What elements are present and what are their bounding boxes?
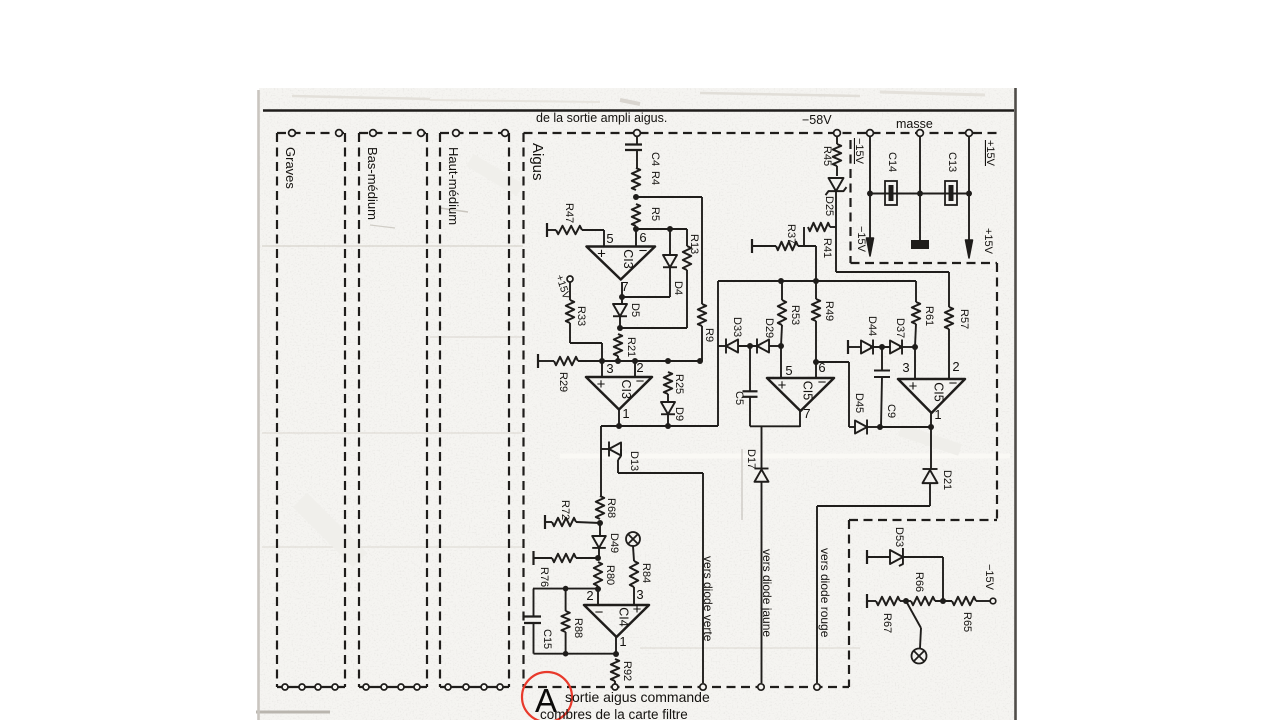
svg-text:D53: D53 — [893, 527, 905, 547]
svg-text:vers diode rouge: vers diode rouge — [818, 548, 832, 638]
svg-text:D33: D33 — [731, 317, 743, 337]
svg-text:+: + — [909, 378, 918, 395]
svg-text:+15V: +15V — [984, 140, 996, 167]
svg-text:R47: R47 — [563, 203, 575, 223]
svg-text:C5: C5 — [733, 391, 745, 405]
svg-text:7: 7 — [803, 406, 810, 421]
svg-text:C15: C15 — [541, 629, 553, 649]
svg-text:−: − — [949, 375, 958, 392]
svg-text:R72: R72 — [559, 500, 571, 520]
svg-text:CI4: CI4 — [617, 607, 631, 627]
svg-text:D21: D21 — [941, 470, 953, 490]
svg-text:R80: R80 — [604, 565, 616, 585]
svg-text:C14: C14 — [886, 152, 898, 172]
svg-text:R67: R67 — [881, 613, 893, 633]
svg-text:D17: D17 — [745, 449, 757, 469]
svg-text:R49: R49 — [823, 301, 835, 321]
svg-text:3: 3 — [902, 360, 909, 375]
svg-text:D13: D13 — [628, 451, 640, 471]
svg-text:CI3: CI3 — [619, 380, 633, 400]
svg-text:−: − — [639, 243, 648, 260]
svg-text:+: + — [597, 246, 606, 263]
svg-text:D4: D4 — [672, 281, 684, 295]
svg-text:R66: R66 — [913, 572, 925, 592]
svg-text:Aigus: Aigus — [529, 143, 546, 181]
svg-text:R68: R68 — [605, 498, 617, 518]
svg-text:−15V: −15V — [853, 138, 865, 165]
svg-text:de la sortie ampli aigus.: de la sortie ampli aigus. — [536, 111, 667, 125]
svg-text:C9: C9 — [885, 404, 897, 418]
svg-text:vers diode verte: vers diode verte — [701, 556, 715, 642]
svg-text:5: 5 — [606, 231, 613, 246]
svg-text:−: − — [636, 373, 645, 390]
svg-text:6: 6 — [639, 230, 646, 245]
svg-text:D5: D5 — [629, 303, 641, 317]
svg-text:R92: R92 — [621, 661, 633, 681]
svg-text:R88: R88 — [572, 618, 584, 638]
svg-text:−15V: −15V — [983, 564, 995, 591]
svg-text:D25: D25 — [823, 196, 835, 216]
svg-text:3: 3 — [606, 361, 613, 376]
svg-text:R5: R5 — [649, 207, 661, 221]
svg-text:+15V: +15V — [982, 228, 994, 255]
svg-text:R76: R76 — [538, 567, 550, 587]
svg-text:1: 1 — [934, 407, 941, 422]
svg-text:D9: D9 — [673, 407, 685, 421]
svg-text:R57: R57 — [958, 309, 970, 329]
svg-text:Graves: Graves — [283, 147, 298, 189]
svg-text:2: 2 — [586, 588, 593, 603]
svg-text:R84: R84 — [640, 563, 652, 583]
svg-text:Haut-médium: Haut-médium — [446, 147, 461, 225]
svg-text:D44: D44 — [866, 316, 878, 336]
svg-text:R61: R61 — [923, 306, 935, 326]
svg-text:D29: D29 — [763, 318, 775, 338]
svg-text:sortie aigus commande: sortie aigus commande — [565, 689, 710, 705]
svg-text:R21: R21 — [625, 337, 637, 357]
svg-text:R13: R13 — [688, 234, 700, 254]
svg-text:+: + — [778, 377, 787, 394]
svg-text:+: + — [597, 376, 606, 393]
svg-text:CI5: CI5 — [801, 381, 815, 401]
svg-text:1: 1 — [619, 634, 626, 649]
svg-text:+: + — [633, 601, 642, 618]
svg-text:−: − — [595, 604, 604, 621]
svg-text:−58V: −58V — [802, 113, 832, 127]
svg-text:D49: D49 — [608, 533, 620, 553]
svg-text:1: 1 — [622, 406, 629, 421]
svg-text:R41: R41 — [821, 238, 833, 258]
svg-text:R9: R9 — [703, 328, 715, 342]
svg-text:−15V: −15V — [855, 226, 867, 253]
svg-text:R33: R33 — [575, 306, 587, 326]
svg-text:D37: D37 — [894, 318, 906, 338]
svg-text:Bas-médium: Bas-médium — [365, 147, 380, 220]
svg-text:−: − — [818, 374, 827, 391]
svg-text:2: 2 — [952, 359, 959, 374]
svg-text:masse: masse — [896, 117, 933, 131]
svg-text:6: 6 — [818, 360, 825, 375]
svg-text:CI3: CI3 — [621, 249, 635, 269]
svg-text:C4: C4 — [649, 152, 661, 166]
svg-text:R65: R65 — [961, 612, 973, 632]
svg-text:D45: D45 — [853, 393, 865, 413]
svg-text:R29: R29 — [557, 372, 569, 392]
svg-text:3: 3 — [636, 587, 643, 602]
svg-text:5: 5 — [785, 363, 792, 378]
svg-text:CI5: CI5 — [932, 382, 946, 402]
svg-text:combres de la carte filtre: combres de la carte filtre — [540, 707, 688, 720]
svg-text:R37: R37 — [785, 224, 797, 244]
svg-text:R25: R25 — [673, 374, 685, 394]
svg-text:C13: C13 — [946, 152, 958, 172]
svg-text:2: 2 — [636, 360, 643, 375]
svg-text:R45: R45 — [821, 146, 833, 166]
svg-text:R53: R53 — [789, 305, 801, 325]
svg-text:R4: R4 — [649, 171, 661, 185]
